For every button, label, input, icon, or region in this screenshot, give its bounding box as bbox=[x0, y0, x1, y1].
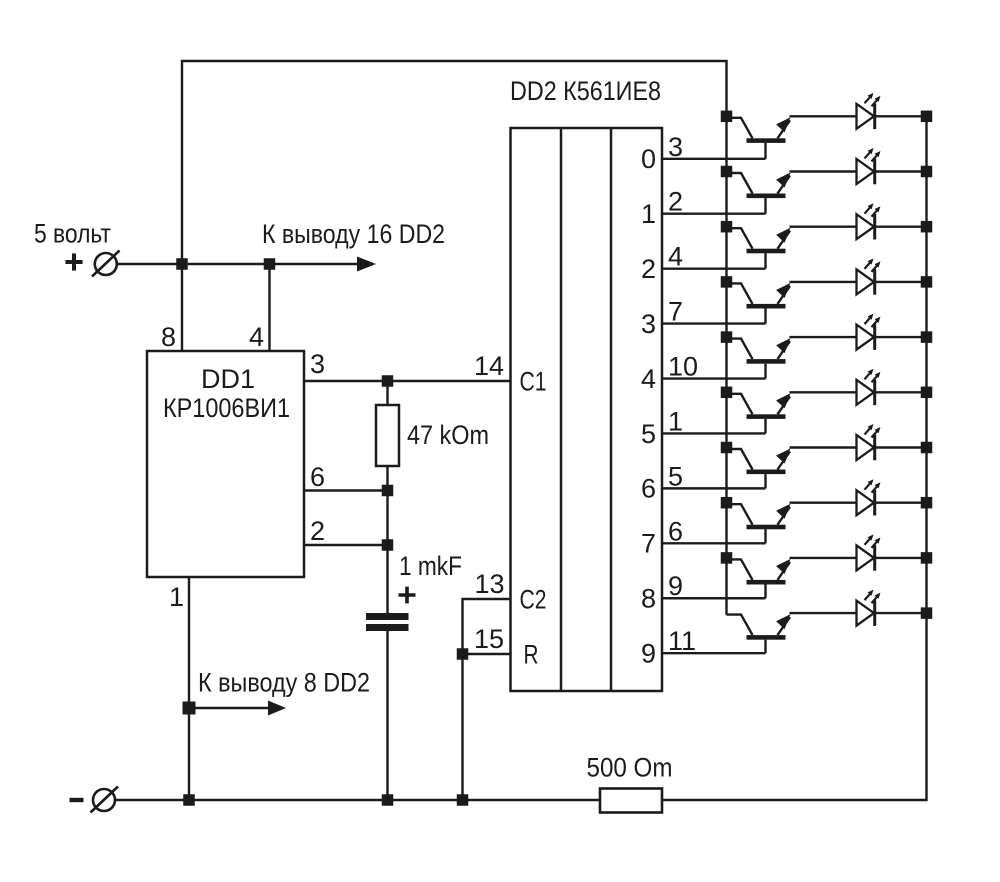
wire ground rail right of R2 up the LED bus bbox=[662, 116, 927, 800]
node: junction pin 2 bbox=[382, 539, 394, 551]
svg-text:7: 7 bbox=[668, 297, 683, 327]
IC DD2 К561ИЕ8 (decade counter) bbox=[511, 128, 663, 691]
node: junction gnd / DD1 pin 1 bbox=[183, 794, 195, 806]
node: right bus junction LED 3 bbox=[921, 221, 933, 233]
node: right bus junction LED 4 bbox=[921, 276, 933, 288]
wire collector Q1 to LED HL1 bbox=[790, 115, 857, 117]
arrow to DD2 pin 8 bbox=[189, 707, 268, 709]
LED HL6 bbox=[857, 369, 881, 405]
node: left bus junction, emitter Q6 bbox=[721, 387, 733, 399]
svg-text:C1: C1 bbox=[520, 367, 547, 397]
wire C1 bottom lead bbox=[386, 631, 388, 801]
svg-text:6: 6 bbox=[668, 516, 683, 546]
node: junction V+ / DD1 pin 8 bbox=[176, 258, 188, 270]
node: right bus junction LED 5 bbox=[921, 331, 933, 343]
LED HL1 bbox=[857, 93, 881, 129]
wire LED HL5 cathode to right bus bbox=[875, 336, 927, 338]
svg-text:9: 9 bbox=[641, 638, 656, 668]
transistor Q9 (NPN) bbox=[727, 559, 791, 598]
LED HL3 bbox=[857, 203, 881, 239]
wire DD2 C2 (pin 13) bbox=[463, 599, 511, 800]
wire collector Q5 to LED HL5 bbox=[790, 336, 857, 338]
node: right bus junction LED 10 bbox=[921, 607, 933, 619]
capacitor C1 1mkF (plates) bbox=[366, 617, 409, 628]
transistor Q10 (NPN) bbox=[727, 614, 791, 653]
wire DD1 pin 8 bbox=[181, 264, 183, 351]
svg-text:0: 0 bbox=[641, 144, 656, 174]
plus sign of C1 polarity bbox=[399, 587, 416, 604]
svg-text:6: 6 bbox=[641, 474, 656, 504]
arrow to DD2 pin 16 bbox=[357, 257, 376, 272]
wire DD2 output 7 to base of Q8 bbox=[662, 542, 766, 544]
svg-text:5: 5 bbox=[641, 419, 656, 449]
terminal X2 minus (circle with slash) bbox=[91, 787, 119, 813]
node: right bus junction LED 9 bbox=[921, 552, 933, 564]
svg-text:2: 2 bbox=[668, 187, 683, 217]
node: junction pin1 arrow tap bbox=[183, 702, 196, 715]
node: junction pin 6 bbox=[382, 485, 394, 497]
node: left bus junction, emitter Q9 bbox=[721, 552, 733, 564]
wire LED HL10 cathode to right bus bbox=[875, 612, 927, 614]
transistor Q5 (NPN) bbox=[727, 338, 791, 378]
svg-text:R: R bbox=[524, 640, 539, 670]
svg-text:К выводу 16 DD2: К выводу 16 DD2 bbox=[262, 219, 445, 249]
wire ground rail left of R2 bbox=[115, 799, 600, 801]
node: left bus junction, emitter Q7 bbox=[721, 442, 733, 454]
svg-text:500 Om: 500 Om bbox=[587, 753, 673, 783]
wire DD1 pin 4 bbox=[268, 264, 270, 351]
node: left bus junction, emitter Q5 bbox=[721, 331, 733, 343]
svg-text:1 mkF: 1 mkF bbox=[399, 551, 462, 581]
svg-text:8: 8 bbox=[161, 322, 176, 352]
wire LED HL8 cathode to right bus bbox=[875, 502, 927, 504]
svg-text:10: 10 bbox=[668, 352, 698, 382]
wire LED HL6 cathode to right bus bbox=[875, 391, 927, 393]
wire DD2 output 1 to base of Q2 bbox=[662, 213, 766, 215]
wire R1 bottom to capacitor bbox=[386, 466, 388, 614]
minus sign at gnd terminal bbox=[70, 798, 84, 802]
svg-text:DD2 К561ИЕ8: DD2 К561ИЕ8 bbox=[510, 76, 661, 106]
wire DD2 output 6 to base of Q7 bbox=[662, 487, 766, 489]
wire collector Q10 to LED HL10 bbox=[790, 612, 857, 614]
wire DD1 pin 2 bbox=[304, 544, 388, 546]
LED HL8 bbox=[857, 479, 881, 515]
svg-text:C2: C2 bbox=[520, 585, 547, 615]
wire DD2 output 9 to base of Q10 bbox=[662, 652, 766, 654]
transistor Q3 (NPN) bbox=[727, 228, 791, 269]
svg-text:4: 4 bbox=[668, 242, 683, 272]
node: junction C2/R wires bbox=[457, 648, 469, 660]
svg-text:КР1006ВИ1: КР1006ВИ1 bbox=[163, 393, 290, 423]
wire collector Q4 to LED HL4 bbox=[790, 281, 857, 283]
transistor Q2 (NPN) bbox=[727, 173, 791, 214]
resistor R2 500 Om bbox=[600, 789, 662, 813]
svg-text:9: 9 bbox=[668, 571, 683, 601]
svg-text:6: 6 bbox=[310, 462, 325, 492]
wire DD1 pin 6 bbox=[304, 489, 388, 491]
wire DD2 output 8 to base of Q9 bbox=[662, 597, 766, 599]
wire collector Q3 to LED HL3 bbox=[790, 225, 857, 227]
node: right bus junction LED 2 bbox=[921, 166, 933, 178]
wire DD2 output 4 to base of Q5 bbox=[662, 377, 766, 379]
wire LED HL1 cathode to right bus bbox=[875, 115, 927, 117]
svg-text:5 вольт: 5 вольт bbox=[34, 219, 111, 249]
node: junction gnd / R wire bbox=[457, 794, 469, 806]
svg-text:13: 13 bbox=[474, 569, 504, 599]
svg-text:4: 4 bbox=[249, 322, 264, 352]
LED HL2 bbox=[857, 148, 881, 184]
LED HL4 bbox=[857, 258, 881, 294]
wire DD2 output 2 to base of Q3 bbox=[662, 267, 766, 269]
wire collector Q2 to LED HL2 bbox=[790, 170, 857, 172]
wire LED HL9 cathode to right bus bbox=[875, 557, 927, 559]
wire DD2 output 3 to base of Q4 bbox=[662, 322, 766, 324]
IC DD1 КР1006ВИ1 (timer) bbox=[147, 351, 304, 577]
LED HL9 bbox=[857, 534, 881, 570]
wire DD2 output 0 to base of Q1 bbox=[662, 158, 766, 160]
transistor Q4 (NPN) bbox=[727, 283, 791, 324]
node: left bus junction, emitter Q8 bbox=[721, 497, 733, 509]
transistor Q8 (NPN) bbox=[727, 504, 791, 544]
node: left bus junction, emitter Q4 bbox=[721, 276, 733, 288]
svg-text:К выводу 8 DD2: К выводу 8 DD2 bbox=[198, 668, 370, 698]
wire DD2 R (pin 15) bbox=[463, 653, 511, 655]
wire collector Q8 to LED HL8 bbox=[790, 502, 857, 504]
wire collector Q9 to LED HL9 bbox=[790, 557, 857, 559]
svg-text:3: 3 bbox=[641, 309, 656, 339]
svg-text:1: 1 bbox=[641, 199, 656, 229]
wire DD1 pin 1 bbox=[188, 577, 190, 800]
wire LED HL2 cathode to right bus bbox=[875, 170, 927, 172]
svg-text:14: 14 bbox=[474, 351, 504, 381]
svg-text:7: 7 bbox=[641, 529, 656, 559]
svg-text:5: 5 bbox=[668, 461, 683, 491]
wire DD2 output 5 to base of Q6 bbox=[662, 432, 766, 434]
wire R1 top lead bbox=[386, 381, 388, 405]
svg-text:4: 4 bbox=[641, 364, 656, 394]
transistor Q6 (NPN) bbox=[727, 393, 791, 433]
wire LED HL3 cathode to right bus bbox=[875, 225, 927, 227]
node: right bus junction LED 8 bbox=[921, 497, 933, 509]
svg-text:3: 3 bbox=[310, 349, 325, 379]
node: junction gnd / C1 bbox=[382, 794, 394, 806]
wire +5V rail bbox=[117, 263, 358, 265]
wire V+ top run and left transistor bus bbox=[182, 61, 727, 615]
svg-text:8: 8 bbox=[641, 584, 656, 614]
node: right bus junction LED 7 bbox=[921, 442, 933, 454]
svg-text:3: 3 bbox=[668, 132, 683, 162]
svg-text:1: 1 bbox=[169, 582, 184, 612]
svg-text:DD1: DD1 bbox=[201, 364, 255, 394]
node: left bus junction, emitter Q3 bbox=[721, 221, 733, 233]
wire LED HL7 cathode to right bus bbox=[875, 446, 927, 448]
node: junction V+ / DD1 pin 4 bbox=[264, 258, 276, 270]
resistor R1 47 kOm bbox=[376, 405, 399, 466]
LED HL7 bbox=[857, 424, 881, 460]
svg-text:47 kOm: 47 kOm bbox=[407, 420, 489, 450]
node: right bus junction LED 6 bbox=[921, 387, 933, 399]
node: left bus junction, emitter Q2 bbox=[721, 166, 733, 178]
plus sign at +5V terminal bbox=[65, 253, 82, 270]
LED HL5 bbox=[857, 314, 881, 350]
node: left bus junction, emitter Q1 bbox=[721, 111, 733, 123]
svg-text:2: 2 bbox=[641, 254, 656, 284]
svg-text:1: 1 bbox=[668, 406, 683, 436]
transistor Q7 (NPN) bbox=[727, 449, 791, 489]
node: right bus junction LED 1 bbox=[921, 111, 933, 123]
node: junction pin3 / R1 bbox=[382, 375, 394, 387]
wire LED HL4 cathode to right bus bbox=[875, 281, 927, 283]
svg-text:15: 15 bbox=[474, 624, 504, 654]
LED HL10 bbox=[857, 590, 881, 626]
svg-text:2: 2 bbox=[310, 516, 325, 546]
svg-text:11: 11 bbox=[668, 626, 696, 656]
transistor Q1 (NPN) bbox=[727, 117, 791, 159]
wire DD1 pin 3 to DD2 C1 (pin 14) bbox=[304, 380, 511, 382]
wire collector Q7 to LED HL7 bbox=[790, 446, 857, 448]
wire collector Q6 to LED HL6 bbox=[790, 391, 857, 393]
terminal X1 +5V (circle with slash) bbox=[92, 251, 120, 277]
